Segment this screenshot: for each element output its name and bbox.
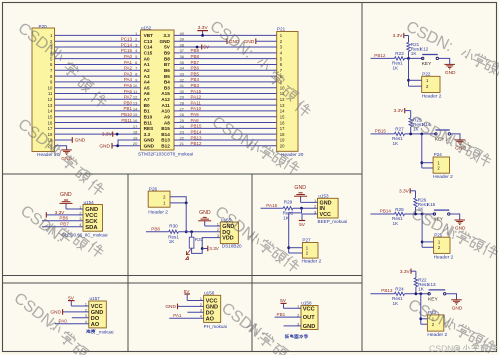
power port 3.3V block P24 [394, 108, 411, 114]
svg-text:PB9: PB9 [191, 48, 200, 53]
svg-text:15: 15 [48, 114, 53, 119]
svg-text:R29: R29 [284, 200, 293, 205]
power port 5V above u158 [280, 298, 287, 308]
svg-text:AO: AO [206, 316, 215, 322]
divider vertical x252 [251, 174, 253, 352]
svg-text:PA7: PA7 [124, 95, 133, 100]
svg-text:P26: P26 [149, 186, 158, 191]
wire R31 bottom loop [192, 248, 203, 253]
wire P26 pin1 [170, 202, 186, 204]
svg-text:1K: 1K [393, 141, 400, 146]
svg-text:P21: P21 [277, 27, 286, 32]
svg-text:u158: u158 [301, 301, 312, 306]
pin names u155 [222, 224, 234, 242]
svg-text:PA11: PA11 [191, 100, 202, 105]
svg-text:KEY: KEY [428, 296, 438, 302]
wire u154 GND pin [66, 208, 83, 210]
svg-text:R28: R28 [395, 207, 404, 212]
connector P25 Header 2 body [434, 237, 450, 253]
pin numbers P25 [438, 240, 441, 250]
svg-text:Header 2: Header 2 [302, 259, 322, 265]
pin numbers P24 [437, 160, 440, 170]
svg-text:16: 16 [48, 120, 53, 125]
wire 3.3V to resistor R26 [415, 191, 417, 198]
IC u155 DS18B20 body [220, 222, 238, 244]
power port GND above u154 [60, 192, 73, 209]
svg-text:5V: 5V [203, 45, 210, 51]
resistor R25 Res1 1K vertical [409, 117, 424, 131]
svg-text:PB12: PB12 [191, 141, 203, 146]
wire P20 pin 10 to U152 [55, 87, 141, 89]
wire P20 pin 13 to U152 [55, 104, 141, 106]
svg-text:GND: GND [159, 39, 170, 44]
noerc marker [186, 249, 191, 259]
wire U152 B9 row to P21 pin 4 [174, 52, 277, 54]
pin names u158 [303, 306, 315, 330]
svg-text:1K: 1K [411, 51, 418, 56]
wire u153 GND pin [301, 201, 318, 203]
wire U152 A15 row to P21 pin 11 [174, 93, 277, 95]
svg-text:1K: 1K [393, 65, 400, 70]
power port 3.3V block P22 [393, 33, 409, 39]
svg-text:13: 13 [48, 103, 53, 108]
svg-text:PB15: PB15 [375, 128, 387, 133]
svg-text:Header 2: Header 2 [434, 254, 454, 260]
wire u157 VCC pin [71, 305, 89, 307]
svg-text:A10: A10 [161, 109, 170, 114]
svg-text:GND: GND [294, 185, 306, 191]
wire U152 B12 row to P21 pin 20 [174, 145, 277, 147]
svg-text:B7: B7 [164, 62, 170, 67]
IC u154 OLED module body [83, 205, 103, 232]
power port 3.3V block P23 [400, 269, 416, 275]
svg-text:19: 19 [280, 138, 285, 143]
wire R30 to u155 DQ [178, 231, 220, 233]
svg-text:PB6: PB6 [191, 66, 200, 71]
svg-text:B4: B4 [164, 80, 170, 85]
svg-text:3.3V: 3.3V [400, 269, 411, 275]
svg-text:KEY: KEY [422, 61, 432, 67]
svg-text:PC15: PC15 [121, 48, 133, 53]
svg-text:Header 2: Header 2 [148, 209, 168, 215]
wire node down to P22 [408, 58, 410, 86]
divider horizontal row1/row2 [3, 173, 363, 175]
svg-text:1K: 1K [393, 301, 400, 306]
wire P26 pin2 [170, 197, 186, 203]
svg-text:1K: 1K [393, 221, 400, 226]
svg-text:A3: A3 [144, 74, 150, 79]
power port 3.3V module B [208, 246, 220, 251]
wire u155 VDD pin [202, 238, 220, 249]
wire P25 pin2 stub [422, 246, 434, 248]
power port 5V above u157 [68, 296, 75, 307]
svg-text:13: 13 [280, 103, 285, 108]
svg-text:PC13: PC13 [121, 37, 133, 42]
pin numbers U152 right side 40-21 [180, 31, 185, 146]
svg-text:PA2: PA2 [124, 66, 133, 71]
svg-text:B5: B5 [164, 74, 170, 79]
watermark footer [429, 344, 497, 354]
wire u156 VCC pin [187, 300, 203, 302]
resistor R26 Res1 1K vertical [414, 198, 429, 212]
svg-text:u157: u157 [90, 296, 101, 301]
svg-text:u154: u154 [84, 200, 95, 205]
resistor R27 Res1 1K [392, 127, 405, 146]
wire IN row down to P27 [289, 208, 302, 253]
svg-text:PA12: PA12 [191, 95, 202, 100]
svg-text:PA5: PA5 [124, 83, 133, 88]
wire R22 to node [415, 287, 417, 294]
power port GND above u153 [294, 185, 307, 203]
ground symbol below P20 [61, 150, 72, 162]
svg-text:14: 14 [48, 109, 53, 114]
wire P20 pin 3 to U152 [55, 46, 141, 48]
svg-text:PA9: PA9 [191, 112, 200, 117]
svg-text:A9: A9 [164, 114, 170, 119]
svg-text:A12: A12 [161, 97, 170, 102]
resistor R28 Res1 1K [392, 207, 405, 226]
svg-text:A11: A11 [162, 103, 171, 108]
svg-text:18: 18 [133, 130, 138, 135]
wire P20 pin 6 to U152 [55, 63, 141, 65]
svg-text:B8: B8 [164, 56, 170, 61]
svg-text:C13: C13 [144, 39, 153, 44]
svg-text:PB7: PB7 [60, 221, 69, 226]
junction P26 pin1 [185, 202, 188, 205]
svg-text:PB14: PB14 [191, 129, 203, 134]
svg-text:R24: R24 [395, 287, 404, 292]
svg-text:PA1: PA1 [173, 313, 182, 318]
wire U152 B13 row to P21 pin 19 [174, 139, 277, 141]
junction node1 [415, 292, 418, 295]
svg-text:VCC: VCC [320, 212, 331, 218]
key switch K15 [433, 210, 450, 222]
svg-text:GND: GND [303, 324, 315, 330]
svg-text:K12: K12 [420, 47, 429, 52]
svg-text:PA0: PA0 [124, 54, 133, 59]
wire U152 A8 row to P21 pin 16 [174, 122, 277, 124]
svg-text:R27: R27 [395, 127, 404, 132]
wire U152 A12 row to P21 pin 12 [174, 98, 277, 100]
svg-text:17: 17 [48, 126, 53, 131]
wire P23 pin1 stub [421, 318, 428, 320]
pin names u157 [91, 304, 103, 328]
svg-text:PA8: PA8 [191, 118, 200, 123]
svg-text:VBT: VBT [144, 33, 154, 38]
svg-text:OUT: OUT [303, 315, 315, 321]
pin numbers u156 1-4 [200, 296, 203, 319]
wire PA15 row [261, 207, 284, 209]
svg-text:1K: 1K [418, 287, 425, 292]
junction 5V row [196, 46, 199, 49]
wire U152 pin19 GND [118, 140, 141, 146]
svg-text:GND: GND [75, 138, 86, 144]
svg-text:16: 16 [280, 120, 285, 125]
wire P24 pin1 stub [422, 162, 433, 164]
svg-text:K15: K15 [427, 202, 436, 207]
svg-text:B13: B13 [161, 138, 170, 143]
ground symbol block P23 [451, 300, 463, 312]
power port GND left of U152 [99, 143, 112, 150]
wire U152 A10 row to P21 pin 14 [174, 110, 277, 112]
wire U152 5V row to P21 pin3 [174, 46, 277, 48]
pin numbers U152 left side 1-20 [133, 31, 138, 146]
wire U152 B6 row to P21 pin 7 [174, 69, 277, 71]
power port GND on P20 pin19 [72, 137, 85, 144]
wire R28 to key [405, 213, 435, 215]
svg-text:AO: AO [91, 322, 100, 328]
svg-text:CSDN: CSDN [429, 344, 453, 354]
power port 5V on row3 [202, 45, 210, 51]
svg-text:u156: u156 [204, 291, 215, 296]
label relay pump module [285, 334, 308, 338]
wire P21 pin2 stub [256, 40, 277, 42]
resistor R29 Res1 1K [283, 200, 294, 221]
svg-text:A4: A4 [144, 80, 150, 85]
IC u157 turbidity module body [89, 301, 107, 328]
svg-text:17: 17 [280, 126, 285, 131]
svg-text:PB14: PB14 [380, 208, 392, 213]
wire R25 to node [410, 127, 412, 134]
wire 3.3V to resistor R22 [415, 271, 417, 278]
wire u155 GND pin [205, 225, 221, 227]
power port 5V above u156 [184, 289, 191, 300]
wire P25 pin1 stub [422, 241, 434, 243]
wire key to ground [450, 214, 460, 220]
power port GND left u157 [50, 309, 62, 316]
ground symbol block P22 [444, 64, 456, 76]
connector P22 Header 2 body [422, 76, 440, 92]
svg-text:GND: GND [99, 143, 110, 149]
svg-text:15: 15 [280, 114, 285, 119]
wire P22 pin1 stub [409, 79, 422, 81]
power port GND above u155 [198, 210, 211, 226]
svg-text:PH_mokuai: PH_mokuai [204, 324, 227, 329]
wire node down to P23 [420, 294, 422, 324]
wire u158 GND pin [284, 325, 301, 327]
wire R27 to key [405, 133, 436, 135]
svg-text:17: 17 [133, 124, 138, 129]
IC U152 STM32F103C8T6 module body [141, 30, 175, 150]
svg-text:PB7: PB7 [191, 60, 200, 65]
wire u154 VCC pin [46, 214, 83, 216]
power port GND left of P21 [244, 38, 256, 45]
svg-text:12: 12 [48, 97, 53, 102]
wire U152 B7 row to P21 pin 6 [174, 63, 277, 65]
wire U152 B15 row to P21 pin 17 [174, 127, 277, 129]
junction node1 [414, 213, 417, 216]
wire R24 to key [405, 293, 430, 295]
wire P20 pin 11 to U152 [55, 93, 141, 95]
svg-text:PA6: PA6 [124, 89, 133, 94]
svg-text:A0: A0 [144, 56, 150, 61]
svg-text:PB12: PB12 [374, 53, 386, 58]
divider vertical x128 [127, 174, 129, 352]
svg-text:u153: u153 [318, 194, 329, 199]
pin names U152 left column [144, 33, 155, 148]
svg-text:PB5: PB5 [191, 71, 200, 76]
svg-text:18: 18 [280, 132, 285, 137]
svg-text:PC14: PC14 [121, 42, 133, 47]
wire u158 VCC pin [284, 307, 302, 309]
wire key to ground [451, 134, 461, 140]
junction IN row [300, 207, 303, 210]
junction DQ net left [185, 230, 188, 233]
pin numbers u155 1-3 [217, 221, 220, 238]
svg-text:PB0: PB0 [123, 100, 132, 105]
wire P20 pin 1 to U152 [55, 34, 141, 36]
svg-text:3.3: 3.3 [144, 132, 151, 137]
wire R21 to node [408, 51, 410, 58]
ground symbol block P24 [455, 140, 467, 152]
wire P27 pin2 stub [289, 252, 303, 254]
svg-text:GND: GND [199, 210, 211, 216]
connector P27 Header 2 body [302, 243, 318, 259]
svg-text:PA3: PA3 [124, 71, 133, 76]
wire R26 to node [415, 207, 417, 214]
wire key to ground [439, 58, 450, 64]
svg-text:5V: 5V [164, 45, 171, 50]
junction 3.3V row1 [201, 34, 204, 37]
svg-text:16: 16 [133, 118, 138, 123]
svg-text:R23: R23 [395, 51, 404, 56]
wire u156 AO pin [169, 317, 203, 319]
pin names u156 [206, 299, 218, 323]
wire PB8 row [146, 231, 169, 233]
connector P23 Header 2 body [427, 315, 443, 331]
svg-text:P22: P22 [422, 72, 431, 77]
pin names u153 [320, 200, 332, 218]
wire U152 B3 row to P21 pin 10 [174, 87, 277, 89]
wire P27 pin1 stub [289, 247, 303, 249]
wire PB15 row [371, 133, 395, 135]
junction node1 [407, 57, 410, 60]
svg-text:Header 2: Header 2 [427, 332, 447, 338]
svg-text:PB13: PB13 [191, 135, 203, 140]
svg-text:3.3V: 3.3V [55, 210, 65, 215]
svg-text:PB8: PB8 [191, 54, 200, 59]
svg-text:PA1: PA1 [124, 60, 133, 65]
wire u153 VCC pin [302, 214, 318, 220]
junction header pin1 [407, 79, 410, 82]
pin numbers P23 [432, 317, 435, 327]
svg-text:A2: A2 [144, 68, 150, 73]
svg-text:C14: C14 [144, 45, 153, 50]
power port 3.3V block P25 [399, 188, 415, 194]
svg-text:DS18B20: DS18B20 [222, 244, 242, 249]
wire PB13 row [371, 293, 395, 295]
wire P20 pin 9 to U152 [55, 81, 141, 83]
connector P20 Header 20 body [32, 28, 55, 152]
resistor R21 Res1 1K vertical [407, 42, 422, 56]
wire U152 B4 row to P21 pin 9 [174, 81, 277, 83]
pin numbers u158 1-3 [297, 304, 300, 327]
wire PB12 row [371, 57, 395, 59]
svg-text:3.3V: 3.3V [209, 246, 219, 251]
svg-text:14: 14 [280, 109, 285, 114]
wire U152 pin20 GND [112, 145, 141, 147]
junction node2 [419, 292, 422, 295]
svg-text:u152: u152 [141, 25, 152, 30]
svg-text:10: 10 [280, 85, 285, 90]
wire P20 pin 15 to U152 [55, 116, 141, 118]
pin names u154 [85, 207, 98, 231]
svg-text:PB10: PB10 [121, 112, 133, 117]
wire P24 pin2 stub [422, 167, 433, 169]
svg-text:PB11: PB11 [121, 118, 132, 123]
svg-text:RES: RES [144, 126, 154, 131]
IC u156 PH module body [204, 295, 221, 322]
svg-text:A8: A8 [164, 120, 170, 125]
junction node2 [421, 213, 424, 216]
wire u157 GND pin [63, 311, 89, 313]
svg-text:A6: A6 [144, 91, 150, 96]
svg-text:PB1: PB1 [123, 106, 132, 111]
junction P27 pin1 [287, 246, 290, 249]
wire U152 B14 row to P21 pin 18 [174, 133, 277, 135]
junction header pin1 [419, 317, 422, 320]
wire P23 pin2 stub [421, 323, 428, 325]
svg-text:A15: A15 [161, 91, 170, 96]
svg-text:B11: B11 [144, 120, 153, 125]
svg-text:Header 2: Header 2 [433, 174, 453, 180]
power port 3.3V above row1 [197, 25, 208, 35]
wire U152 3.3 row to P21 pin1 [174, 34, 277, 36]
svg-text:19: 19 [133, 135, 138, 140]
svg-text:P20: P20 [39, 24, 48, 29]
svg-text:B12: B12 [161, 143, 170, 148]
power port GND left u156 [165, 304, 177, 311]
svg-text:PA4: PA4 [124, 77, 133, 82]
svg-text:GND: GND [452, 305, 463, 311]
svg-text:A5: A5 [144, 85, 150, 90]
power port 3.3V on VCC wire [46, 210, 65, 217]
IC u153 BEEP module body [318, 198, 339, 218]
wire P20 pin 7 to U152 [55, 69, 141, 71]
svg-text:B15: B15 [161, 126, 170, 131]
junction R31 top [190, 230, 193, 233]
svg-text:13: 13 [133, 101, 138, 106]
wire U152 A11 row to P21 pin 13 [174, 104, 277, 106]
wire P20 pin 20 to ground [55, 146, 67, 150]
wire u154 SCK pin [42, 220, 83, 222]
svg-text:3.3V: 3.3V [393, 33, 404, 39]
wire node down to P25 [421, 214, 423, 247]
svg-text:10: 10 [48, 85, 53, 90]
svg-text:GND: GND [60, 192, 72, 198]
resistor R30 Res1 1K [168, 224, 179, 245]
resistor R31 box style [189, 232, 203, 248]
wire R23 to key [405, 57, 423, 59]
svg-text:P24: P24 [434, 152, 443, 157]
svg-text:STM32F103C8T6_mokuai: STM32F103C8T6_mokuai [138, 151, 193, 156]
svg-text:14: 14 [133, 106, 138, 111]
wire P20 pin 4 to U152 [55, 52, 141, 54]
key switch K12 [422, 55, 439, 67]
pin numbers P22 [426, 78, 429, 89]
resistor R24 Res1 1K [392, 287, 405, 306]
svg-text:B6: B6 [164, 68, 170, 73]
svg-text:PA15: PA15 [191, 89, 202, 94]
pin numbers P21 1-20 [280, 33, 285, 148]
junction node2 [420, 133, 423, 136]
ground symbol block P25 [454, 220, 466, 232]
svg-text:A7: A7 [144, 97, 150, 102]
svg-text:15: 15 [133, 112, 138, 117]
svg-text:B10: B10 [144, 114, 153, 119]
svg-text:B3: B3 [164, 85, 170, 90]
svg-text:Header 2: Header 2 [422, 94, 442, 100]
